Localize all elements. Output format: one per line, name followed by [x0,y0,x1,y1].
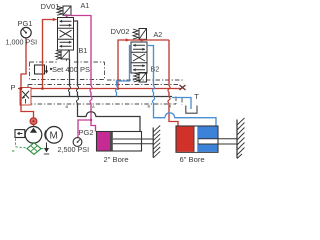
svg-text:P: P [11,83,16,92]
svg-text:2,500 PSI: 2,500 PSI [58,145,90,154]
svg-text:PG1: PG1 [18,19,33,28]
svg-text:6" Bore: 6" Bore [180,155,205,164]
svg-text:2" Bore: 2" Bore [104,155,129,164]
svg-text:Set 400 PSI: Set 400 PSI [52,65,92,74]
svg-text:1,000 PSI: 1,000 PSI [6,38,38,47]
svg-text:A: A [92,104,95,109]
svg-text:B2: B2 [151,65,160,74]
svg-text:PG2: PG2 [79,128,94,137]
svg-text:A1: A1 [81,1,90,10]
svg-text:DV02: DV02 [111,27,130,36]
svg-text:A2: A2 [154,30,163,39]
svg-text:B1: B1 [79,46,88,55]
svg-text:M: M [50,131,58,142]
svg-text:A: A [169,104,172,109]
svg-text:T: T [194,92,199,101]
svg-text:B: B [148,104,151,109]
svg-text:DV01: DV01 [41,2,60,11]
svg-text:B: B [66,104,69,109]
